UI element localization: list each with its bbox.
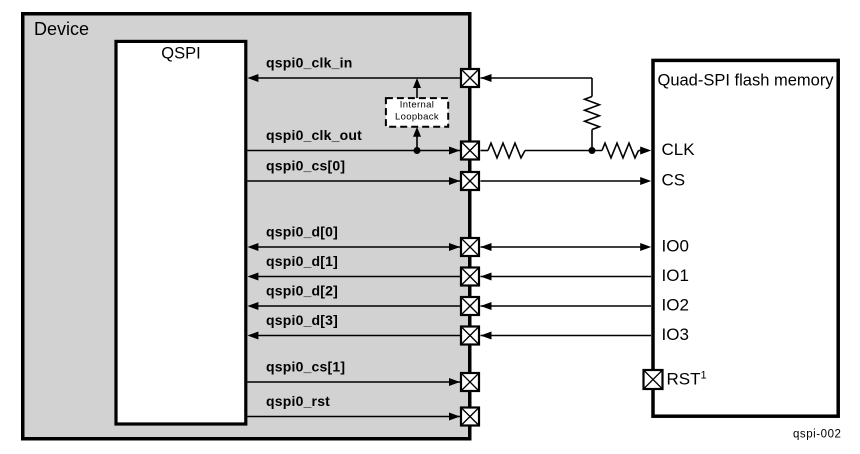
svg-text:qspi0_clk_out: qspi0_clk_out — [266, 127, 362, 143]
pad qspi0_d[2] — [461, 297, 479, 315]
svg-text:CS: CS — [662, 171, 686, 190]
wire pad column vertical — [469, 68, 472, 427]
wire loopback upper vertical — [416, 83, 418, 98]
svg-text:IO3: IO3 — [662, 325, 689, 344]
wire clk_in external — [481, 77, 593, 79]
svg-text:QSPI: QSPI — [161, 45, 200, 63]
svg-text:qspi0_clk_in: qspi0_clk_in — [266, 55, 352, 71]
wire d[1] external — [481, 276, 652, 278]
node junction on clk_out — [414, 147, 421, 154]
wire qspi0_cs[0] internal — [247, 180, 460, 182]
pad qspi0_clk_in — [461, 69, 479, 87]
pad qspi0_cs[1] — [461, 373, 479, 391]
svg-text:qspi0_rst: qspi0_rst — [266, 393, 330, 409]
wire qspi0_clk_in internal — [252, 77, 460, 79]
pad qspi0_rst — [461, 408, 479, 426]
svg-text:IO1: IO1 — [662, 266, 689, 285]
pad qspi0_d[1] — [461, 268, 479, 286]
pad qspi0_clk_out — [461, 142, 479, 160]
wire qspi0_d[0] internal — [252, 246, 460, 248]
resistor series R2 — [602, 143, 639, 158]
pad qspi0_d[3] — [461, 327, 479, 345]
wire loopback lower vertical — [416, 132, 418, 151]
svg-text:Internal: Internal — [400, 100, 435, 111]
svg-text:qspi0_cs[1]: qspi0_cs[1] — [266, 359, 345, 375]
svg-text:Device: Device — [34, 19, 89, 39]
resistor series R1 — [488, 143, 525, 158]
pad RST on flash — [644, 370, 663, 389]
pad qspi0_cs[0] — [461, 172, 479, 190]
wire qspi0_clk_out internal — [247, 150, 460, 152]
wire d[3] external — [481, 335, 652, 337]
Device block — [23, 14, 470, 439]
wire qspi0_rst internal — [247, 416, 460, 418]
svg-text:qspi-002: qspi-002 — [793, 429, 842, 441]
wire d[2] external — [481, 305, 652, 307]
svg-text:Quad-SPI flash memory: Quad-SPI flash memory — [658, 72, 835, 90]
wire qspi0_d[2] internal — [252, 305, 460, 307]
wire clk_out external with resistors — [481, 150, 489, 152]
svg-text:Loopback: Loopback — [395, 111, 439, 122]
svg-text:qspi0_d[3]: qspi0_d[3] — [266, 312, 338, 328]
node junction clk — [589, 147, 596, 154]
svg-text:IO0: IO0 — [662, 237, 689, 256]
wire qspi0_d[1] internal — [252, 276, 460, 278]
svg-text:qspi0_d[0]: qspi0_d[0] — [266, 224, 338, 240]
wire d[0] external — [481, 246, 648, 248]
svg-text:qspi0_cs[0]: qspi0_cs[0] — [266, 158, 345, 174]
wire cs[0] external — [481, 180, 648, 182]
svg-text:qspi0_d[1]: qspi0_d[1] — [266, 253, 338, 269]
Internal Loopback box — [386, 98, 448, 127]
wire qspi0_d[3] internal — [252, 335, 460, 337]
resistor vertical pull — [585, 97, 600, 130]
pad qspi0_d[0] — [461, 238, 479, 256]
Quad-SPI flash memory block — [653, 60, 838, 416]
wire qspi0_cs[1] internal — [247, 381, 460, 383]
svg-text:IO2: IO2 — [662, 296, 689, 315]
QSPI block — [116, 41, 246, 424]
svg-text:qspi0_d[2]: qspi0_d[2] — [266, 283, 338, 299]
svg-text:CLK: CLK — [662, 140, 696, 159]
